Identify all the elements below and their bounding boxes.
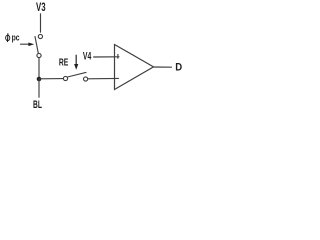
svg-text:D: D xyxy=(175,62,182,74)
wire S1 to junction xyxy=(38,58,40,79)
node BL xyxy=(33,99,42,111)
wire S2 to op-amp minus input xyxy=(88,77,119,79)
switch S2 blade xyxy=(67,72,86,77)
svg-text:V3: V3 xyxy=(36,2,46,14)
junction node xyxy=(37,77,42,82)
label phi-pc xyxy=(6,34,10,42)
node V4 xyxy=(83,51,91,63)
plus sign at op-amp input xyxy=(117,54,119,58)
svg-text:BL: BL xyxy=(33,99,42,111)
label RE xyxy=(59,58,69,69)
wire V4 to op-amp plus input xyxy=(94,56,119,58)
switch S1 blade xyxy=(35,37,38,54)
svg-text:RE: RE xyxy=(59,58,69,69)
switch S2 left terminal xyxy=(63,76,67,80)
control arrow RE xyxy=(74,55,78,70)
wire op-amp output to D xyxy=(154,66,172,68)
svg-text:V4: V4 xyxy=(83,51,91,63)
switch S1 bottom terminal xyxy=(37,53,41,57)
wire V3 to switch S1 xyxy=(40,14,42,32)
switch S2 right terminal xyxy=(84,77,88,81)
control arrow phi-pc xyxy=(21,43,35,47)
wire junction to switch S2 xyxy=(39,78,63,80)
svg-text:pc: pc xyxy=(12,32,20,42)
wire junction to BL xyxy=(38,79,40,97)
op-amp U1 xyxy=(115,45,154,90)
node V3 xyxy=(36,2,46,14)
node D xyxy=(175,62,182,74)
switch S1 top terminal xyxy=(38,34,42,38)
